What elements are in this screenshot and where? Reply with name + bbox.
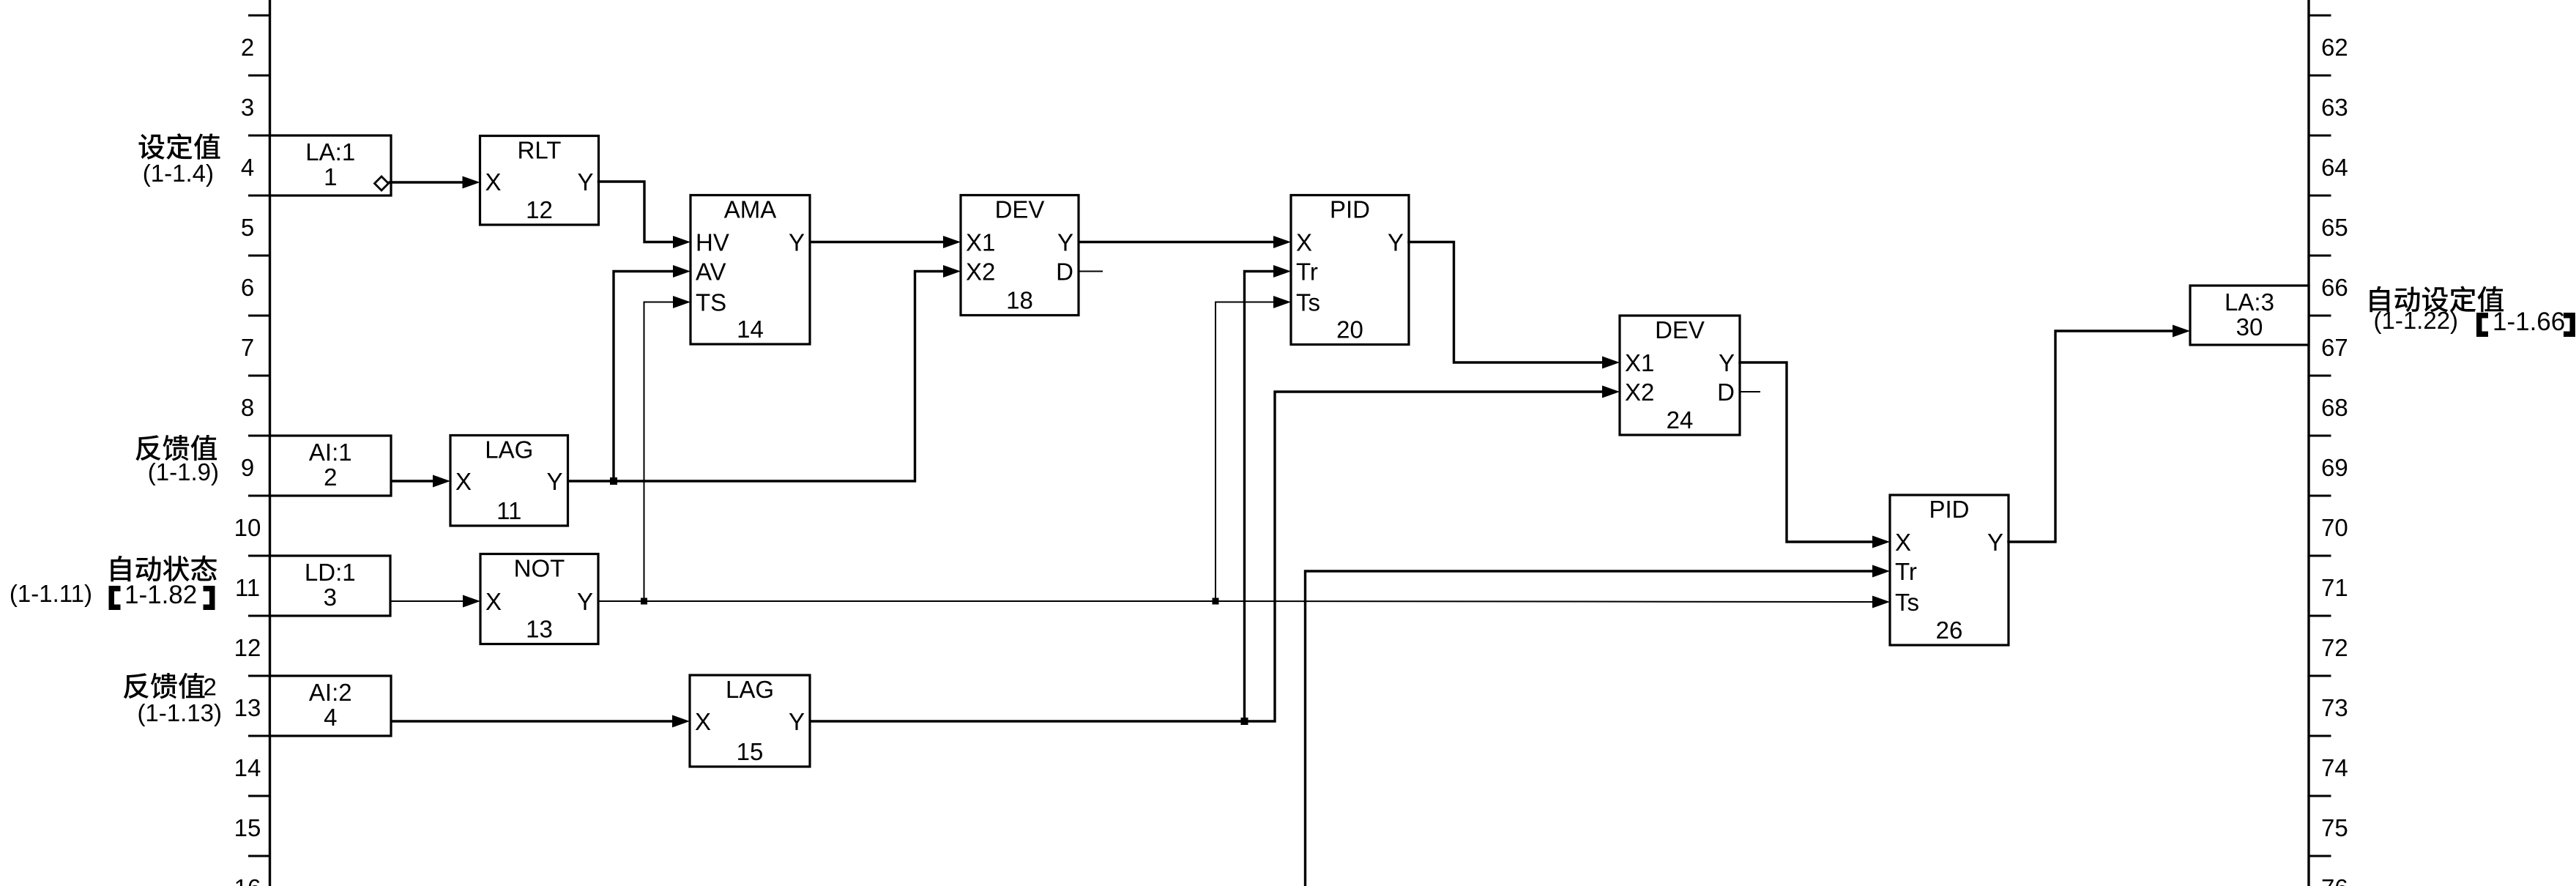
wire AI:2 -> LAG15.X xyxy=(391,720,673,722)
svg-text:75: 75 xyxy=(2321,814,2348,841)
svg-text:13: 13 xyxy=(526,616,553,643)
svg-text:AI:1: AI:1 xyxy=(309,439,352,466)
function block AMA 14 xyxy=(690,196,810,345)
svg-text:15: 15 xyxy=(234,814,261,841)
label 反馈值 (feedback) xyxy=(135,435,217,461)
svg-text:D: D xyxy=(1056,258,1073,286)
right ruler numbers 62-76 xyxy=(2321,34,2348,886)
function block DEV 18 xyxy=(961,196,1079,316)
left ruler line xyxy=(269,0,271,886)
svg-text:8: 8 xyxy=(241,394,254,421)
function block LAG 15 xyxy=(690,675,810,767)
wire NOT net -> second junction xyxy=(644,600,1216,602)
svg-text:72: 72 xyxy=(2321,634,2348,661)
wire AMA.Y -> DEV18.X1 xyxy=(810,241,944,243)
wire PID20.Y -> DEV24.X1 xyxy=(1409,242,1603,363)
svg-text:Y: Y xyxy=(1987,529,2003,556)
svg-text:LA:1: LA:1 xyxy=(305,138,355,165)
svg-text:TS: TS xyxy=(696,289,726,316)
wire from bottom -> PID26.Tr xyxy=(1306,571,1873,886)
wire DEV24.Y -> PID26.X xyxy=(1740,362,1873,542)
svg-text:13: 13 xyxy=(234,694,261,721)
wire NOT net -> PID26.Ts xyxy=(1216,601,1873,602)
left ruler numbers 2-16 xyxy=(234,34,261,886)
svg-text:24: 24 xyxy=(1667,406,1694,433)
svg-text:AI:2: AI:2 xyxy=(309,679,352,706)
svg-text:(1-1.9): (1-1.9) xyxy=(148,458,219,485)
svg-text:X: X xyxy=(455,468,472,495)
wire junction -> AMA.TS xyxy=(644,302,674,602)
svg-text:DEV: DEV xyxy=(995,196,1045,223)
svg-text:67: 67 xyxy=(2321,334,2348,361)
svg-text:Y: Y xyxy=(789,229,805,256)
svg-text:7: 7 xyxy=(241,334,254,361)
svg-text:11: 11 xyxy=(235,574,260,601)
svg-text:(1-1.13): (1-1.13) xyxy=(137,699,222,726)
svg-text:AMA: AMA xyxy=(724,196,777,223)
wire AI:1 -> LAG11.X xyxy=(391,480,433,482)
stub DEV18.D xyxy=(1079,271,1103,272)
svg-text:66: 66 xyxy=(2321,274,2348,301)
svg-text:4: 4 xyxy=(324,704,337,731)
svg-text:2: 2 xyxy=(241,34,254,61)
svg-text:73: 73 xyxy=(2321,694,2348,721)
svg-text:Y: Y xyxy=(789,708,805,735)
wire NOT13.Y -> junction xyxy=(598,600,644,602)
wire junction -> DEV18.X2 xyxy=(614,272,944,482)
function block NOT 13 xyxy=(480,554,598,644)
input block LD:1 (auto status) xyxy=(270,556,391,616)
svg-text:63: 63 xyxy=(2321,94,2348,121)
svg-text:64: 64 xyxy=(2321,154,2348,181)
diamond output marker on LA:1 xyxy=(375,176,389,190)
svg-text:1-1.82: 1-1.82 xyxy=(124,581,197,609)
svg-text:X: X xyxy=(695,708,711,735)
svg-text:71: 71 xyxy=(2321,574,2348,601)
svg-text:DEV: DEV xyxy=(1655,316,1705,343)
svg-text:X1: X1 xyxy=(1625,349,1654,376)
junction at LAG15 output xyxy=(1241,718,1248,725)
svg-text:14: 14 xyxy=(737,316,764,343)
svg-text:(1-1.22): (1-1.22) xyxy=(2374,307,2459,334)
wire junction -> DEV24.X2 xyxy=(1245,392,1603,721)
svg-text:10: 10 xyxy=(234,514,261,541)
svg-text:4: 4 xyxy=(241,154,254,181)
svg-text:12: 12 xyxy=(526,196,553,223)
svg-text:X2: X2 xyxy=(1625,379,1654,406)
svg-text:Y: Y xyxy=(546,468,562,495)
svg-text:3: 3 xyxy=(241,94,254,121)
svg-text:X: X xyxy=(1895,529,1911,556)
svg-text:Y: Y xyxy=(577,588,593,615)
function block DEV 24 xyxy=(1620,316,1740,435)
svg-text:X: X xyxy=(485,168,502,196)
svg-text:2: 2 xyxy=(324,464,337,491)
svg-text:Ts: Ts xyxy=(1296,289,1320,316)
svg-text:NOT: NOT xyxy=(514,555,565,582)
output block LA:3 (auto setpoint) xyxy=(2190,286,2309,345)
svg-text:11: 11 xyxy=(496,497,521,524)
svg-text:Y: Y xyxy=(1388,229,1404,256)
svg-text:1-1.66: 1-1.66 xyxy=(2493,308,2565,336)
svg-text:(1-1.11): (1-1.11) xyxy=(10,580,92,607)
svg-text:RLT: RLT xyxy=(518,137,562,164)
input block AI:1 (feedback) xyxy=(270,436,392,496)
svg-text:X1: X1 xyxy=(966,229,995,256)
svg-text:69: 69 xyxy=(2321,454,2348,481)
svg-text:1: 1 xyxy=(324,163,337,190)
wire DEV18.Y -> PID20.X xyxy=(1079,241,1274,243)
function block LAG 11 xyxy=(450,436,568,526)
svg-text:PID: PID xyxy=(1330,196,1370,223)
wire LAG15.Y -> junction xyxy=(810,720,1245,722)
label 自动设定值 (auto setpoint) xyxy=(2370,286,2504,313)
wire LAG11.Y -> junction xyxy=(568,480,614,482)
svg-text:LD:1: LD:1 xyxy=(305,559,356,586)
svg-text:6: 6 xyxy=(241,274,254,301)
svg-text:Tr: Tr xyxy=(1895,558,1917,585)
input block AI:2 (feedback 2) xyxy=(270,676,392,736)
wire LD:1 -> NOT13.X xyxy=(390,600,464,602)
svg-text:12: 12 xyxy=(234,634,261,661)
function block RLT 12 xyxy=(480,136,599,226)
wire PID26.Y -> LA:3 xyxy=(2009,331,2173,542)
svg-text:HV: HV xyxy=(696,229,729,256)
svg-text:Y: Y xyxy=(1719,349,1735,376)
svg-text:PID: PID xyxy=(1929,496,1969,523)
label 自动状态 (auto status) xyxy=(111,556,217,582)
svg-text:X: X xyxy=(1296,229,1312,256)
svg-text:Tr: Tr xyxy=(1296,258,1318,286)
svg-text:X: X xyxy=(485,588,502,615)
svg-text:62: 62 xyxy=(2321,34,2348,61)
svg-text:15: 15 xyxy=(737,738,764,765)
svg-text:20: 20 xyxy=(1336,316,1363,343)
svg-text:AV: AV xyxy=(696,258,726,286)
wire junction -> PID20.Tr xyxy=(1245,272,1274,722)
wire junction -> AMA.AV xyxy=(614,272,674,482)
svg-text:5: 5 xyxy=(241,214,254,241)
junction at LAG11 output xyxy=(610,477,617,485)
label (1-1.22) 【1-1.66】 xyxy=(2374,307,2573,336)
left ruler ticks xyxy=(248,15,270,856)
svg-text:Ts: Ts xyxy=(1895,589,1919,616)
svg-text:76: 76 xyxy=(2321,874,2348,886)
svg-text:65: 65 xyxy=(2321,214,2348,241)
input block LA:1 (setpoint) xyxy=(270,135,392,196)
label 设定值 (setpoint) xyxy=(139,133,220,160)
wire RLT.Y -> AMA.HV xyxy=(599,182,674,242)
svg-text:18: 18 xyxy=(1006,287,1033,314)
svg-text:68: 68 xyxy=(2321,394,2348,421)
svg-text:70: 70 xyxy=(2321,514,2348,541)
function block PID 20 xyxy=(1291,196,1409,345)
svg-text:D: D xyxy=(1717,379,1735,406)
svg-text:Y: Y xyxy=(577,168,593,196)
svg-text:Y: Y xyxy=(1057,229,1073,256)
svg-text:2: 2 xyxy=(204,674,217,701)
svg-text:30: 30 xyxy=(2236,313,2263,340)
svg-text:9: 9 xyxy=(241,454,254,481)
label 反馈值2 (feedback 2) xyxy=(124,673,205,699)
svg-text:3: 3 xyxy=(324,584,337,611)
svg-text:LAG: LAG xyxy=(485,436,533,464)
wire junction -> PID20.Ts xyxy=(1216,302,1274,602)
stub DEV24.D xyxy=(1740,391,1760,392)
junction at NOT13 output xyxy=(641,598,647,605)
right ruler ticks xyxy=(2309,15,2331,856)
junction on NOT net xyxy=(1213,598,1219,605)
wire LA:1 -> RLT.X xyxy=(389,181,464,183)
svg-text:LA:3: LA:3 xyxy=(2225,288,2274,316)
svg-text:(1-1.4): (1-1.4) xyxy=(143,160,214,187)
right ruler line xyxy=(2307,0,2309,886)
label (1-1.11) 【1-1.82】 xyxy=(10,580,212,609)
svg-text:14: 14 xyxy=(234,754,261,781)
svg-text:16: 16 xyxy=(234,874,261,886)
svg-text:LAG: LAG xyxy=(726,676,774,703)
svg-text:X2: X2 xyxy=(966,258,995,286)
svg-text:26: 26 xyxy=(1936,617,1963,644)
function block PID 26 xyxy=(1890,495,2009,645)
svg-text:74: 74 xyxy=(2321,754,2348,781)
